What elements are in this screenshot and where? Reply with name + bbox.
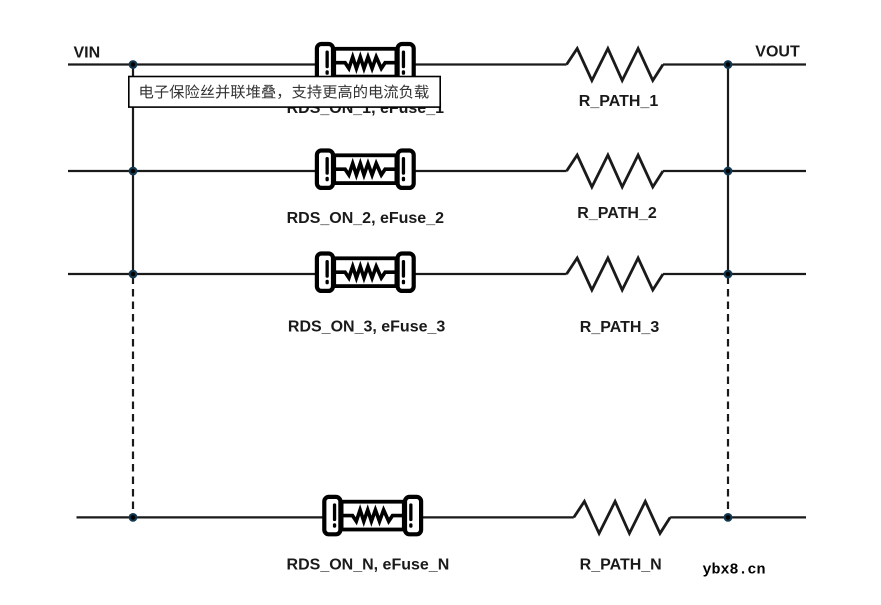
junction node VIN bus / row N xyxy=(129,513,138,522)
resistor R_PATH_N xyxy=(574,501,670,533)
junction node VIN bus / row 1 xyxy=(129,60,138,69)
junction node VOUT bus / row 1 xyxy=(724,60,733,69)
svg-text:R_PATH_2: R_PATH_2 xyxy=(577,205,657,222)
wire row 2 right segment (R_PATH_2 to VOUT bus) xyxy=(663,170,806,172)
svg-text:RDS_ON_2, eFuse_2: RDS_ON_2, eFuse_2 xyxy=(287,210,445,227)
wire VOUT bus vertical (solid, row 1 to row 3) xyxy=(727,65,729,275)
junction node VIN bus / row 3 xyxy=(129,270,138,279)
junction node VOUT bus / row 2 xyxy=(724,167,733,176)
wire VOUT bus vertical (dashed, row 3 to row N) xyxy=(727,277,729,511)
svg-text:ybx8.cn: ybx8.cn xyxy=(703,561,766,578)
wire VIN bus vertical (dashed, row 3 to row N) xyxy=(132,277,134,511)
svg-text:R_PATH_1: R_PATH_1 xyxy=(579,93,659,110)
svg-text:RDS_ON_3, eFuse_3: RDS_ON_3, eFuse_3 xyxy=(288,319,446,336)
eFuse_N fuse symbol (RDS_ON_N) xyxy=(324,497,421,534)
junction node VIN bus / row 2 xyxy=(129,167,138,176)
resistor R_PATH_3 xyxy=(567,258,663,290)
wire row 3 left segment (VIN bus to R_PATH_3) xyxy=(68,273,567,275)
svg-text:VOUT: VOUT xyxy=(755,44,800,61)
wire row N right segment (R_PATH_N to VOUT bus) xyxy=(670,516,806,518)
wire row 1 right segment (R_PATH_1 to VOUT bus) xyxy=(663,63,806,65)
wire row N left segment (VIN bus to R_PATH_N) xyxy=(77,516,574,518)
wire row 1 left segment (VIN bus to R_PATH_1) xyxy=(68,63,567,65)
junction node VOUT bus / row N xyxy=(724,513,733,522)
eFuse_2 fuse symbol (RDS_ON_2) xyxy=(317,151,414,188)
wire row 3 right segment (R_PATH_3 to VOUT bus) xyxy=(663,273,806,275)
wire row 2 left segment (VIN bus to R_PATH_2) xyxy=(68,170,567,172)
resistor R_PATH_2 xyxy=(567,155,663,187)
eFuse_3 fuse symbol (RDS_ON_3) xyxy=(317,254,414,291)
svg-text:VIN: VIN xyxy=(74,45,101,62)
junction node VOUT bus / row 3 xyxy=(724,270,733,279)
tooltip text: 电子保险丝并联堆叠，支持更高的电流负载 xyxy=(140,84,428,99)
svg-text:RDS_ON_N, eFuse_N: RDS_ON_N, eFuse_N xyxy=(287,556,450,573)
svg-text:R_PATH_N: R_PATH_N xyxy=(580,556,662,573)
tooltip callout box xyxy=(129,77,440,108)
wire VIN bus vertical (solid, row 1 to row 3) xyxy=(132,65,134,275)
svg-text:R_PATH_3: R_PATH_3 xyxy=(580,319,660,336)
eFuse_1 fuse symbol (RDS_ON_1) xyxy=(317,44,414,81)
resistor R_PATH_1 xyxy=(567,49,663,81)
